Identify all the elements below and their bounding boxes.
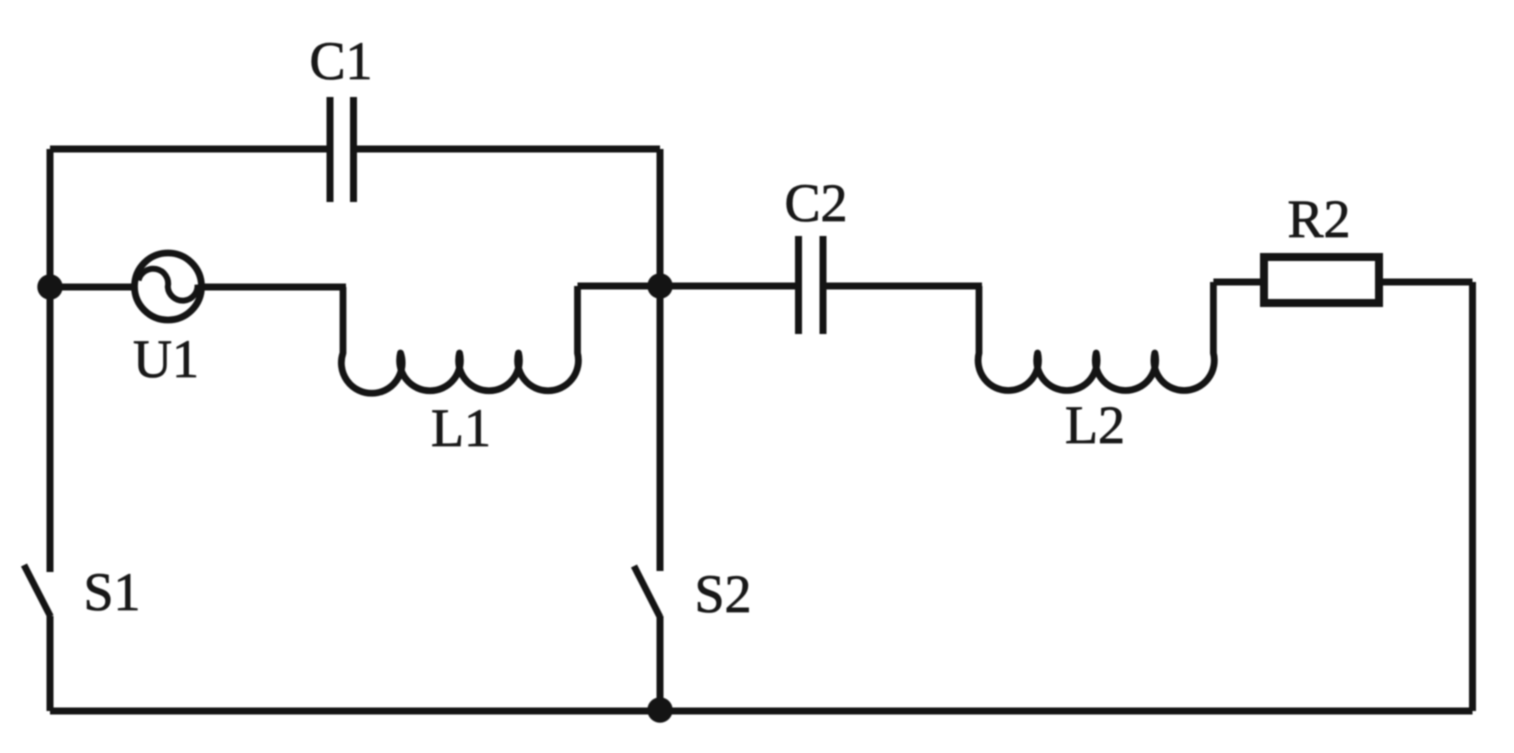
wire L1 to node B: [578, 283, 661, 290]
wire left vertical upper (top wire down to node A): [47, 149, 54, 287]
svg-text:L1: L1: [431, 398, 491, 458]
switch S1 blade: [24, 565, 51, 617]
wire S2 to bottom wire: [657, 616, 664, 711]
sine wave of U1: [139, 269, 198, 301]
wire C2 to L2: [826, 283, 982, 290]
svg-text:C1: C1: [309, 31, 372, 91]
wire bottom horizontal: [50, 708, 1473, 715]
wire R2 to right vertical: [1383, 279, 1473, 286]
svg-text:S1: S1: [83, 562, 140, 622]
svg-text:L2: L2: [1065, 395, 1125, 455]
wire node A to U1: [50, 284, 137, 291]
wire U1 to L1: [200, 284, 346, 291]
node C (bottom junction dot): [647, 697, 672, 722]
wire top-left horizontal (left vertical to C1 left plate): [50, 146, 327, 153]
wire middle vertical (node B down to switch S2): [657, 286, 664, 571]
resistor R2: [1264, 257, 1379, 303]
node B (middle junction dot): [647, 273, 672, 298]
svg-text:R2: R2: [1287, 189, 1350, 249]
wire node B to C2: [660, 283, 795, 290]
switch S2 blade: [634, 566, 660, 617]
capacitor C2: [799, 236, 824, 334]
node A (left junction dot): [37, 274, 62, 299]
capacitor C1: [330, 97, 354, 202]
wire L2 to R2: [1213, 279, 1264, 286]
wire right vertical: [1469, 282, 1476, 711]
wire top-right horizontal (C1 right plate to middle vertical): [357, 146, 660, 153]
svg-text:S2: S2: [694, 564, 751, 624]
ac source U1: [135, 253, 202, 320]
wire S1 to bottom wire: [47, 616, 54, 711]
svg-text:U1: U1: [133, 329, 199, 389]
inductor L2: [978, 282, 1214, 391]
wire middle vertical upper (top wire to node B): [657, 149, 664, 286]
svg-text:C2: C2: [784, 173, 847, 233]
wire left vertical (node A down to switch S1): [47, 287, 54, 572]
inductor L1: [341, 286, 578, 393]
